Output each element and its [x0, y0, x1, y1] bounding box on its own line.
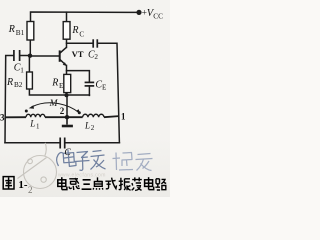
- svg-text:2: 2: [94, 53, 98, 61]
- caption 三: [82, 180, 92, 189]
- wire node2 vertical: [66, 95, 68, 117]
- wire top rail: [31, 12, 140, 22]
- wire collector vertical: [66, 39, 68, 47]
- svg-text:1: 1: [20, 66, 24, 74]
- node VCC dot: [136, 10, 141, 15]
- svg-text:C: C: [64, 147, 71, 158]
- wire RE bottom to CE bottom: [67, 94, 90, 96]
- wire RE to junction: [66, 93, 68, 96]
- svg-text:R: R: [8, 24, 15, 35]
- watermark blue text 电子发烧友 (outline glyphs): [57, 149, 153, 171]
- svg-text:E: E: [102, 84, 107, 92]
- resistor RB1: [27, 22, 34, 41]
- wire RB1 bottom: [29, 40, 31, 56]
- wire bottom rail left: [5, 142, 59, 144]
- svg-text:R: R: [71, 25, 78, 36]
- svg-text:www.elecfans.com: www.elecfans.com: [58, 173, 106, 179]
- wire RC top: [66, 12, 68, 21]
- svg-text:L: L: [84, 120, 90, 130]
- wire CE top: [67, 71, 90, 82]
- wire base: [30, 55, 59, 57]
- wire emitter vertical: [66, 65, 68, 74]
- caption 路: [155, 179, 166, 190]
- resistor RC: [63, 22, 70, 40]
- svg-text:VT: VT: [72, 49, 84, 59]
- caption 荡: [132, 177, 142, 190]
- capacitor C1 plates: [14, 50, 20, 61]
- caption 式: [105, 178, 116, 189]
- node L1 phase dot: [25, 110, 28, 113]
- inductor L2: [67, 116, 119, 117]
- caption 电: [58, 177, 67, 189]
- caption 图 glyph: [3, 177, 14, 189]
- svg-text:B2: B2: [14, 81, 23, 89]
- ground stub below node 2: [62, 117, 73, 126]
- wire C2 left: [67, 42, 93, 44]
- wire bottom rail right: [65, 142, 119, 144]
- svg-text:1: 1: [121, 112, 126, 122]
- svg-text:3: 3: [0, 113, 5, 123]
- svg-text:R: R: [6, 77, 13, 88]
- watermark logo circle (grey): [18, 143, 57, 189]
- wire C1 right to base node: [20, 55, 30, 57]
- transistor VT: [59, 47, 67, 66]
- caption 点: [93, 177, 103, 189]
- wire CE bottom: [88, 86, 90, 95]
- svg-text:1: 1: [36, 122, 40, 130]
- svg-text:C: C: [79, 30, 84, 38]
- svg-text:L: L: [29, 119, 35, 129]
- svg-text:2: 2: [91, 124, 95, 132]
- svg-text:E: E: [59, 82, 64, 90]
- node 2 junction: [65, 115, 69, 119]
- svg-text:2: 2: [60, 106, 65, 116]
- svg-text:B1: B1: [16, 29, 25, 37]
- svg-text:M: M: [49, 99, 59, 109]
- caption 感: [69, 178, 80, 190]
- wire C2 right and right rail: [98, 43, 120, 143]
- caption 电 (2nd): [145, 177, 154, 189]
- capacitor CE plates: [85, 82, 95, 86]
- node RE bottom junction: [65, 93, 69, 97]
- node L2 phase dot: [78, 111, 81, 114]
- node base junction: [28, 54, 32, 58]
- svg-text:R: R: [51, 77, 58, 88]
- wire RB2 bottom: [29, 89, 66, 95]
- capacitor C2 plates: [93, 39, 97, 47]
- svg-text:1-: 1-: [18, 179, 28, 191]
- M coupling arrow: [31, 103, 78, 113]
- svg-text:2: 2: [28, 185, 33, 195]
- wire RB2 top: [28, 56, 30, 72]
- wire C1 left to left rail: [5, 56, 14, 143]
- inductor L1: [5, 116, 67, 118]
- caption 振: [119, 178, 131, 190]
- svg-text:CC: CC: [153, 11, 163, 20]
- resistor RE: [64, 74, 71, 92]
- capacitor C plates (bottom): [60, 138, 64, 149]
- resistor RB2: [27, 72, 33, 89]
